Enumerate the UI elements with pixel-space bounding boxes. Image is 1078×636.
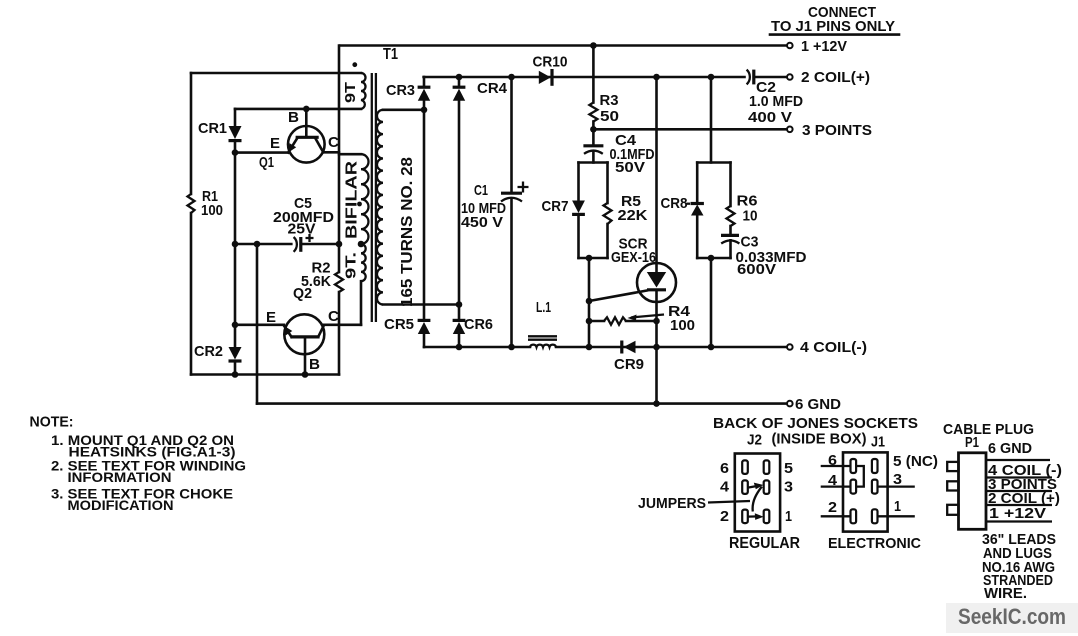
svg-text:4: 4 [828,472,838,489]
box CR8/R6 bottom edge [697,257,730,260]
junction SCR cathode rail [653,344,660,351]
inductor L1 choke [530,345,556,347]
svg-text:6 GND: 6 GND [795,396,841,413]
SCR GEX-16 [655,77,658,272]
wire Q2 emitter [235,323,284,326]
svg-text:Q2: Q2 [293,285,312,302]
svg-text:C3: C3 [741,234,759,251]
J1 pin 2 slot [851,509,857,523]
wire C5 node [235,243,291,246]
svg-text:T1: T1 [383,46,398,63]
svg-text:22K: 22K [618,207,648,224]
wire DC+ coil(+) rail [424,76,745,79]
svg-text:CR2: CR2 [194,343,223,360]
diode CR1 [234,109,237,126]
resistor R5 [606,163,609,204]
svg-text:5: 5 [784,460,793,477]
svg-text:1: 1 [785,508,792,525]
J2 jumper 2-1 [749,515,760,517]
svg-text:25V: 25V [288,221,316,238]
T1 primary winding BIFILAR [339,153,361,156]
svg-text:9T.: 9T. [343,252,360,279]
J2 jumper curve [753,487,762,512]
svg-text:6: 6 [720,460,729,477]
junction CR3 secondary top [421,107,428,114]
svg-text:100: 100 [201,202,223,219]
wire 3 POINTS rail [593,128,786,131]
terminal 4 COIL(-) [787,344,793,350]
svg-text:5 (NC): 5 (NC) [893,453,938,470]
junction gate node [586,298,593,305]
junction CR8/R6 bottom [708,344,715,351]
resistor R3 [592,46,595,103]
svg-text:R3: R3 [600,92,619,109]
svg-text:3 POINTS: 3 POINTS [802,122,872,139]
JUMPERS pointer line [708,501,750,503]
J1 pin 6 slot [851,459,857,473]
transistor Q1 [288,126,325,163]
svg-text:CR8: CR8 [661,195,688,212]
diode CR4 [458,77,461,87]
svg-text:1 +12V: 1 +12V [989,505,1046,522]
terminal 1 +12V [787,43,793,49]
R4 label arrow [631,315,664,318]
svg-text:C: C [328,308,339,325]
J1 wire pin 2 [821,515,851,517]
wire CR3-CR5 leg [423,110,426,321]
capacitor C1 [510,77,513,193]
diode CR9 [624,341,636,353]
svg-text:CR3: CR3 [386,82,415,99]
svg-text:WIRE.: WIRE. [984,585,1027,602]
svg-text:CR5: CR5 [384,316,414,333]
wire left circuit top [191,72,361,75]
transistor Q2 [284,314,324,354]
J1 wire pin 6 [821,465,851,467]
svg-text:4: 4 [720,479,730,496]
box CR7/R5 bottom edge [579,257,608,260]
svg-text:GEX-16: GEX-16 [611,249,656,266]
connector J2 body [735,454,780,532]
P1 tab 3 [947,505,958,515]
junction C1 bottom [508,344,515,351]
wire GND rail [257,402,786,405]
svg-text:1: 1 [894,498,901,515]
J2 pin 2 slot [742,510,748,523]
junction CR4 top [456,74,463,81]
svg-text:450 V: 450 V [461,214,503,231]
resistor R1 [190,73,193,194]
wire C5 node to GND [256,244,259,404]
svg-text:400 V: 400 V [748,110,792,126]
wire Q2 collector [324,323,361,326]
svg-text:INFORMATION: INFORMATION [68,469,172,485]
J2 pin 3 slot [764,480,770,494]
junction R3 bottom [590,126,597,133]
svg-text:CR7: CR7 [542,198,569,215]
wire CR4-CR6 leg [458,101,461,321]
svg-text:50: 50 [600,108,619,125]
svg-text:ELECTRONIC: ELECTRONIC [828,535,921,552]
svg-text:Q1: Q1 [259,154,274,171]
junction R4 left [586,318,593,325]
svg-text:CR10: CR10 [533,53,568,70]
SeekIC.com watermark backdrop [946,603,1078,633]
diode CR7 [577,163,580,201]
svg-text:TO J1 PINS ONLY: TO J1 PINS ONLY [771,18,895,35]
J2 jumper 4-3 [749,486,759,488]
T1 secondary winding [383,109,424,112]
svg-text:3: 3 [893,471,902,488]
junction C1 top [508,74,515,81]
svg-text:1.0 MFD: 1.0 MFD [749,94,803,110]
junction R3 top [590,42,597,49]
capacitor C3 [721,234,739,237]
junction CR8/R6 box bottom [708,255,715,262]
svg-text:CR1: CR1 [198,120,227,137]
connector J1 body [843,452,888,531]
J1 pin 3 slot [872,480,878,494]
J1 pin 5 slot [872,459,878,473]
wire DC- coil(-) rail [424,346,530,349]
J1 wire pin 3 [878,485,915,487]
J1 pin 4 slot [851,480,857,494]
SCR gate wire [589,291,647,302]
wire bottom rail [191,373,339,376]
svg-text:6 GND: 6 GND [988,440,1032,457]
J2 pin 6 slot [742,460,748,474]
junction CR8/R6 branch top [708,74,715,81]
wire +12V top rail [341,44,787,47]
diode CR2 [229,347,242,360]
J2 pin 4 slot [742,480,748,494]
svg-text:100: 100 [670,317,695,334]
svg-text:(INSIDE BOX): (INSIDE BOX) [772,431,867,448]
wire Q1 collector [323,151,339,154]
svg-text:CR6: CR6 [464,316,493,333]
junction CR7/R5 box bottom [586,255,593,262]
T1 primary winding 9T bottom [358,241,365,248]
P1 tab 1 [947,462,958,471]
diode CR5 [418,319,431,322]
svg-text:2: 2 [720,508,729,525]
J1 pin 1 slot [872,509,878,523]
terminal 6 GND [787,401,793,407]
terminal 2 COIL(+) [787,74,793,80]
box CR7/R5 top edge [579,161,608,164]
terminal 3 POINTS [787,127,793,133]
J1 wire pin 1 [878,515,915,517]
svg-text:CABLE PLUG: CABLE PLUG [943,421,1034,438]
P1 tab 2 [947,481,958,490]
svg-text:4 COIL(-): 4 COIL(-) [800,339,867,356]
junction CR4 secondary bottom [456,301,463,308]
cable plug P1 body [959,453,987,530]
svg-text:1 +12V: 1 +12V [801,38,847,55]
resistor R6 [729,163,732,207]
svg-text:CR4: CR4 [477,80,508,97]
svg-text:CR9: CR9 [614,356,644,373]
svg-text:50V: 50V [615,160,645,176]
J1 jumper 6-4 [856,466,864,487]
T1 core [372,73,376,322]
svg-text:BIFILAR: BIFILAR [344,160,361,239]
diode CR3 [423,77,426,87]
T1 phase dot top [352,62,357,67]
wire box bottom to gate node [588,258,591,347]
svg-text:B: B [288,109,299,126]
junction rail left [586,344,593,351]
junction SCR to GND [653,400,660,407]
diode CR8 [696,163,699,204]
svg-text:E: E [266,309,276,326]
svg-text:BACK OF JONES SOCKETS: BACK OF JONES SOCKETS [713,415,918,432]
svg-text:SeekIC.com: SeekIC.com [958,604,1066,629]
diode CR10 [539,71,551,84]
junction SCR branch top [653,74,660,81]
svg-text:B: B [309,356,320,373]
svg-text:JUMPERS: JUMPERS [638,495,706,512]
resistor R2 [338,244,341,272]
J1 wire pin 4 [821,485,851,487]
resistor R4 [589,320,604,323]
T1 primary bus [338,46,341,245]
svg-text:REGULAR: REGULAR [729,535,800,552]
svg-text:MODIFICATION: MODIFICATION [68,497,174,513]
svg-text:9T: 9T [342,82,359,103]
svg-text:2 COIL(+): 2 COIL(+) [801,69,870,86]
svg-text:NOTE:: NOTE: [30,414,74,431]
svg-text:6: 6 [828,452,837,469]
svg-text:3: 3 [784,479,793,496]
J2 pin 5 slot [764,460,770,474]
svg-text:J1: J1 [871,434,885,451]
svg-text:600V: 600V [737,262,776,278]
svg-text:J2: J2 [747,432,762,449]
BIFILAR phase dot [357,202,362,207]
J2 pin 1 slot [764,510,770,523]
wire CR1-CR2 leg [234,153,237,347]
svg-text:10: 10 [743,208,758,225]
capacitor C2 [747,70,750,85]
wire Q1 emitter [235,151,288,154]
svg-text:165 TURNS NO. 28: 165 TURNS NO. 28 [399,157,416,307]
svg-text:L.1: L.1 [536,299,551,316]
capacitor C5 [294,237,297,252]
capacitor C4 [592,129,595,145]
T1 primary winding 9T top [361,73,366,109]
svg-text:C1: C1 [474,182,488,199]
wire Q1 base rail [235,108,361,111]
diode CR6 [453,319,466,322]
svg-text:P1: P1 [965,434,979,451]
svg-text:2: 2 [828,499,837,516]
box CR8/R6 top edge [710,77,713,163]
svg-text:C: C [328,134,339,151]
svg-text:E: E [270,135,280,152]
